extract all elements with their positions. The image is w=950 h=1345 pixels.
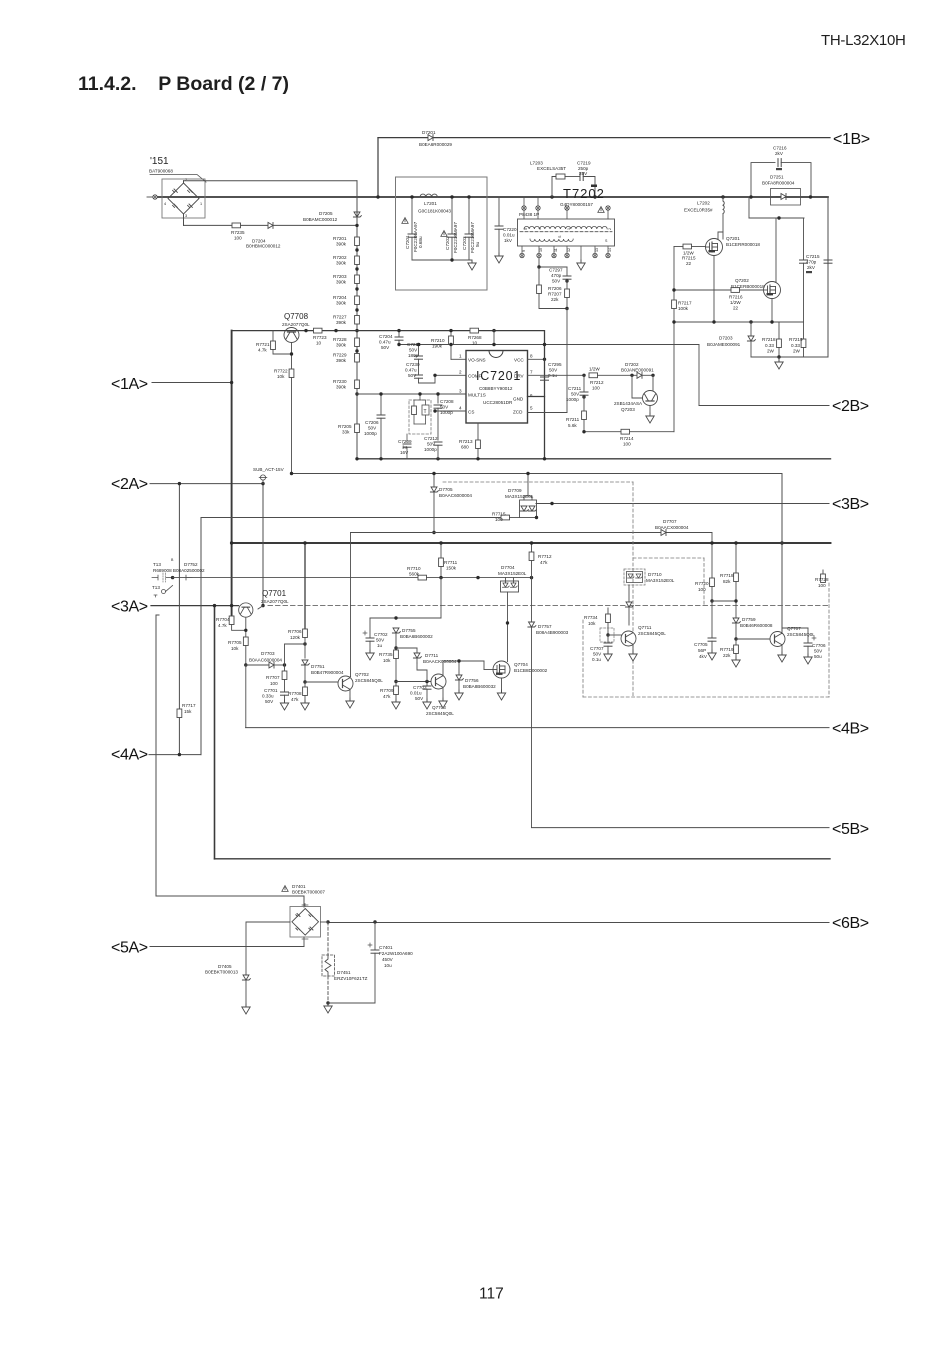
svg-text:B0JANE000091: B0JANE000091 [621,368,654,373]
svg-text:<5B>: <5B> [832,821,869,838]
ground shunt [775,359,783,369]
wire Q7202 source [771,299,773,323]
svg-text:CS: CS [468,410,474,415]
wire Q7707 collector [781,628,783,634]
svg-text:R7210: R7210 [431,338,445,343]
svg-text:B0AAC6000004: B0AAC6000004 [249,658,282,663]
capacitor C7220 [498,197,500,226]
svg-text:F0C2216MA97: F0C2216MA97 [470,222,475,253]
sensor thermistor [422,405,429,415]
svg-text:D7755: D7755 [402,628,416,633]
svg-text:D7202: D7202 [625,362,639,367]
svg-text:R7214: R7214 [620,436,634,441]
svg-text:1u: 1u [377,643,383,648]
svg-text:R7718: R7718 [720,573,734,578]
svg-text:C7297: C7297 [549,268,563,273]
svg-text:D7205: D7205 [319,211,333,216]
svg-text:1u: 1u [402,445,408,450]
capacitor C7209 [406,434,408,442]
T7202 top pin terminals [522,197,610,219]
svg-text:R7704: R7704 [216,617,230,622]
svg-text:5: 5 [530,406,533,411]
wire shunt bottom y357 [751,356,828,358]
wire Q7702 emitter + ground [349,690,351,700]
wire L7202 to drain bus [722,214,724,239]
dashed net line y605.6 [268,605,830,607]
bridge D7401 pin marks [302,904,308,907]
svg-text:1/2W: 1/2W [589,367,600,372]
svg-text:2SA2077Q0L: 2SA2077Q0L [282,322,310,327]
C7219 polarity mark [591,185,597,188]
capacitor C7213 [418,345,420,357]
resistor R7718 [735,543,737,573]
ground C7220 [495,253,503,263]
sensor box bottom [414,423,426,425]
svg-text:1/2W: 1/2W [730,300,741,305]
zener D7203 [747,336,755,341]
transistor Q7701 [239,603,253,617]
wire VCC aux rail y344.5 [399,344,699,346]
capacitor C7206 [380,394,382,415]
capacitor C7204 [398,331,400,337]
wire drain bus left drop [748,197,750,218]
svg-text:100: 100 [592,386,600,391]
svg-text:Q7201: Q7201 [726,236,740,241]
svg-text:11.4.2. P Board (2 / 7): 11.4.2. P Board (2 / 7) [78,73,289,95]
wire loop right [583,177,595,198]
svg-text:D7703: D7703 [261,651,275,656]
resistor R7705 [243,637,248,646]
svg-text:50V: 50V [552,279,561,284]
input filter box L7201 [396,177,488,290]
resistor R7734 [606,614,611,623]
wire y394 to IC pin3 [357,393,466,395]
svg-text:0.1u: 0.1u [592,657,601,662]
wire ZCD pin5 [528,412,568,414]
svg-text:0.47u: 0.47u [405,368,417,373]
capacitor C7202 [451,197,453,234]
wire pin10 drop [539,258,567,267]
resistor R7707 [284,665,286,671]
wire 6B [328,922,829,924]
svg-text:10: 10 [539,248,543,252]
junction chain y459 [355,457,358,460]
svg-text:100: 100 [623,442,631,447]
ground R7719 [732,657,740,667]
wire GND pin6 [528,396,545,398]
svg-text:C7202: C7202 [445,236,450,250]
wire D7709 top to 3B [536,503,538,505]
svg-text:B0AAC6000004: B0AAC6000004 [439,493,472,498]
svg-text:R7728: R7728 [815,577,829,582]
capacitor C7706 [782,627,808,629]
svg-text:C7702: C7702 [374,632,388,637]
svg-text:D7751: D7751 [311,664,325,669]
svg-text:R7705: R7705 [228,640,242,645]
svg-text:F2A2W100A690: F2A2W100A690 [379,951,413,956]
svg-text:4kV: 4kV [699,654,708,659]
capacitor right edge x828 [824,260,832,263]
warning triangle box1 left [402,218,408,224]
wire box1 caps bottom [412,259,472,261]
small dashed box Q7711 [600,628,614,642]
svg-text:R7707: R7707 [266,675,280,680]
svg-text:G4DY80000157: G4DY80000157 [560,202,593,207]
svg-text:B0EBKT000013: B0EBKT000013 [205,970,238,975]
svg-text:F0C2216MA97: F0C2216MA97 [453,222,458,253]
svg-text:1: 1 [200,202,202,206]
svg-text:R7215: R7215 [682,256,696,261]
wire R7268 loop to VCC pin [493,331,495,345]
wire D7703 up to rail x305 [285,644,306,665]
svg-text:1000p: 1000p [440,410,453,415]
zener D7710 lower [625,602,633,607]
svg-text:47k: 47k [383,694,391,699]
svg-text:50V: 50V [415,696,424,701]
resistor R7203 [355,275,360,284]
wire node bus y618 [370,617,441,619]
svg-text:2SC5845Q0L: 2SC5845Q0L [638,631,666,636]
svg-text:C7203: C7203 [462,236,467,250]
zener D7756 [455,675,463,680]
junction chain y225 [355,224,358,227]
transistor Q7703 [431,674,446,689]
svg-text:R7735: R7735 [379,652,393,657]
junction chain y394 [355,392,358,395]
svg-text:22: 22 [733,306,739,311]
svg-text:L7202: L7202 [697,201,710,206]
wire 4B [246,727,829,729]
svg-text:B0FA8R000004: B0FA8R000004 [762,181,795,186]
mosfet Q7201 [706,239,723,256]
wire 5A [150,946,304,948]
resistor R7206 [538,267,540,285]
svg-text:47k: 47k [540,560,548,565]
junction 1A rail [230,381,233,384]
junction chain wire331 [355,329,358,332]
svg-text:C7212: C7212 [424,436,438,441]
svg-text:P8438 1P: P8438 1P [519,212,539,217]
resistor R7723 [314,328,323,333]
svg-text:D7710: D7710 [648,572,662,577]
svg-text:DRV: DRV [514,374,525,379]
svg-text:R7708: R7708 [288,691,302,696]
resistor R7715 [501,515,510,520]
svg-text:100: 100 [495,517,503,522]
junction shunt ground [777,355,780,358]
svg-text:MULT1S: MULT1S [468,393,486,398]
wire R7722 to SUB-ACT rail [291,378,293,474]
zener D7759 [732,618,740,623]
wire bridge left to D7405 [246,922,290,975]
wire R7215 left [674,246,683,248]
svg-text:10: 10 [472,341,478,346]
svg-text:10u: 10u [384,963,392,968]
svg-text:T13: T13 [152,585,160,590]
mosfet Q7704 [493,661,510,678]
wire 3B [536,503,829,505]
svg-text:Q7202: Q7202 [735,278,749,283]
bridge rectifier diamond [168,183,199,214]
bridge left terminal [153,195,157,199]
wire DRV pin7 [528,374,585,376]
svg-text:1kV: 1kV [504,238,513,243]
svg-text:R7205: R7205 [338,424,352,429]
wire 2B riser x699 [698,345,700,406]
svg-text:2kV: 2kV [807,265,816,270]
svg-text:390k: 390k [336,320,347,325]
svg-text:2SC5845Q0L: 2SC5845Q0L [787,632,815,637]
svg-text:<1A>: <1A> [111,376,148,393]
wire R7721 drop [272,331,274,341]
svg-text:5.6k: 5.6k [568,423,577,428]
svg-text:L7201: L7201 [424,201,437,206]
svg-text:D7401: D7401 [292,884,306,889]
resistor R7215 [683,244,692,249]
diode D7202 [637,372,642,378]
svg-text:1000p: 1000p [424,447,437,452]
svg-text:50V: 50V [814,649,823,654]
svg-text:4: 4 [459,406,462,411]
sensor box feed [414,394,426,400]
zener D7757 [528,622,536,627]
junction dots box1 top [410,195,413,198]
wire Q7203 collector [652,375,654,390]
zener D7711 [413,653,421,658]
svg-text:470p: 470p [551,273,562,278]
capacitor C7212 [434,442,442,445]
svg-text:R7227: R7227 [333,315,347,320]
junction loop right [593,195,596,198]
wire Q7703 emitter + ground [442,688,444,700]
wire R7705 to D7703 row [245,646,247,666]
zener D7751 [301,660,309,665]
svg-text:190k: 190k [432,344,443,349]
wire Q7201 drain [718,232,723,240]
svg-text:C7230: C7230 [406,362,420,367]
svg-text:Q7704: Q7704 [514,662,528,667]
svg-text:C7703: C7703 [413,685,427,690]
wire Q7703 collector [443,661,459,676]
capacitor C7216 top loop [751,163,775,197]
svg-text:390k: 390k [336,343,347,348]
svg-text:0.01u: 0.01u [410,691,422,696]
dashed box right edge [828,583,830,697]
svg-text:B0HBMC000012: B0HBMC000012 [246,244,281,249]
resistor R7216 [731,288,740,293]
resistor R7710 [418,575,427,580]
wire gate feed rail x674 [673,247,675,432]
svg-text:D7203: D7203 [719,336,733,341]
inductor L7203 [556,174,565,179]
transistor Q7711 [621,631,636,646]
svg-text:R7721: R7721 [256,342,270,347]
svg-text:10k: 10k [231,646,239,651]
svg-text:R7710: R7710 [407,566,421,571]
wire R7715 to D7709 [510,517,520,519]
resistor R7711 [440,543,442,558]
resistor R7235 [232,223,241,228]
svg-text:R7211: R7211 [566,417,580,422]
T7202 core dashed line [520,231,612,233]
svg-text:2SC5845Q0L: 2SC5845Q0L [355,678,383,683]
resistor R7210 [450,331,452,336]
svg-text:0.47u: 0.47u [379,340,391,345]
svg-text:D7405: D7405 [218,964,232,969]
resistor R7709 [395,682,397,687]
diode D7201 [428,135,433,141]
svg-text:6: 6 [530,393,533,398]
resistor R7213 [477,423,479,440]
wire Q7203 emitter + ground [649,406,651,415]
wire Q7708 row y330.6 [232,330,544,332]
svg-text:390k: 390k [336,261,347,266]
svg-text:C7401: C7401 [379,945,393,950]
wire right edge drop x828 [827,197,829,357]
connector T13 contact symbols [152,575,158,580]
diode D7703 [246,664,269,666]
svg-text:C7220: C7220 [503,227,517,232]
capacitor C7701 [284,680,286,693]
svg-text:33k: 33k [342,430,350,435]
junction Q7701 base [261,604,264,607]
svg-text:EXCEL0R35#: EXCEL0R35# [684,208,713,213]
capacitor C7703 [426,682,428,687]
svg-text:50V: 50V [265,699,274,704]
wire rail x305 from y543 [304,543,306,629]
wire Q7707 base [736,638,770,640]
wire T13 row y577.6 [173,577,418,579]
wire D7201 riser x378 [377,138,379,197]
wire VCC drop x544.5 [544,331,546,459]
wire x156 top stub [156,614,159,616]
wire VO-SNS pin1 [451,358,466,360]
wire main AC rail y197 [158,196,828,198]
svg-text:2: 2 [185,178,187,182]
svg-text:50V: 50V [409,348,418,353]
T7202 secondary winding [530,239,573,241]
svg-text:B0B46R600008: B0B46R600008 [740,623,773,628]
resistor R7722 [289,369,294,378]
wire L7203-C7219 loop [552,177,556,198]
capacitor C7707 [604,643,612,646]
wire Q7703 base row [396,681,431,683]
svg-text:R7706: R7706 [288,629,302,634]
svg-text:C7206: C7206 [365,420,379,425]
wire Q7704 gate [459,660,484,662]
svg-text:390k: 390k [336,280,347,285]
mosfet Q7202 [764,282,781,299]
transistor Q7203 [643,391,658,406]
junction x263 2A [261,482,264,485]
svg-text:2W: 2W [793,349,801,354]
wire R7704 to collector node [232,625,246,631]
wire drop to Q7702 collector [350,533,352,677]
capacitor C7215 [803,218,805,260]
svg-text:VO-SNS: VO-SNS [468,358,486,363]
svg-text:5: 5 [524,228,528,230]
junction 2A x179 [178,482,181,485]
svg-text:R689008 B08A02500002: R689008 B08A02500002 [153,568,205,573]
junction C7216 left [749,195,752,198]
capacitor C7705 [711,601,713,638]
wire D7709 box risers [523,496,525,500]
svg-text:R7711: R7711 [444,560,458,565]
zener D7705 [433,474,435,488]
resistor R7706 [303,629,308,638]
ground C7705 [708,650,716,660]
svg-text:R7230: R7230 [333,379,347,384]
svg-text:R7723: R7723 [313,335,327,340]
dashed inner top [633,557,704,559]
svg-text:100k: 100k [678,306,689,311]
svg-text:C7706: C7706 [812,643,826,648]
wire 3A [151,605,239,607]
capacitor C7230b [418,359,420,375]
sensor resistor [412,406,417,415]
junction rail-mid [230,541,233,544]
wire loop mid [565,176,580,178]
svg-text:R7715: R7715 [492,512,506,517]
wire thick mid rail y543 [232,542,831,544]
svg-text:D7251: D7251 [770,175,784,180]
svg-text:450V: 450V [382,957,394,962]
diode D7204 [268,222,273,228]
svg-text:D7757: D7757 [538,624,552,629]
svg-text:EXCELSA35T: EXCELSA35T [537,166,566,171]
ground D7405 [242,1004,250,1014]
svg-text:SUB_ACT-15V: SUB_ACT-15V [253,467,285,472]
wire 5B [532,827,830,829]
svg-text:D7704: D7704 [501,565,515,570]
wire D7704 bottom drop to Q7704 [507,592,509,662]
svg-text:R7218: R7218 [762,337,776,342]
svg-text:R7228: R7228 [333,337,347,342]
wire R7710 to D7704 [427,577,532,579]
bridge rectifier outer box [162,179,205,218]
resistor R7720 [711,543,713,578]
svg-text:50V: 50V [427,442,436,447]
svg-text:50V: 50V [376,638,385,643]
svg-text:1: 1 [459,354,462,359]
svg-text:VCC: VCC [514,358,524,363]
svg-text:R7219: R7219 [789,337,803,342]
ground C7703 [423,699,431,709]
varistor D7451 [322,955,335,976]
svg-text:390k: 390k [336,301,347,306]
warning triangle box1 mid [441,231,447,237]
warning + D7401 label [282,886,288,892]
wire bottom rail y859 [215,858,831,860]
svg-text:680: 680 [461,445,469,450]
svg-text:<3B>: <3B> [832,496,869,513]
svg-text:C7215: C7215 [806,254,820,259]
capacitor C7208 [437,394,439,403]
svg-text:<3A>: <3A> [111,599,148,616]
svg-text:R7216: R7216 [729,295,743,300]
svg-text:2SA2077Q0L: 2SA2077Q0L [261,599,289,604]
bridge D7401 diamond [292,909,319,936]
wire 3A drop rail x215 [214,606,216,859]
svg-text:COMP: COMP [468,374,482,379]
svg-text:R7204: R7204 [333,295,347,300]
wire IC bottom rail y459 [357,458,831,460]
wire Q7711 emitter + ground [632,645,634,653]
svg-text:D7709: D7709 [508,488,522,493]
svg-text:'151: '151 [150,156,169,167]
resistor R7717 [177,709,182,718]
ic IC7201 body [466,351,528,424]
